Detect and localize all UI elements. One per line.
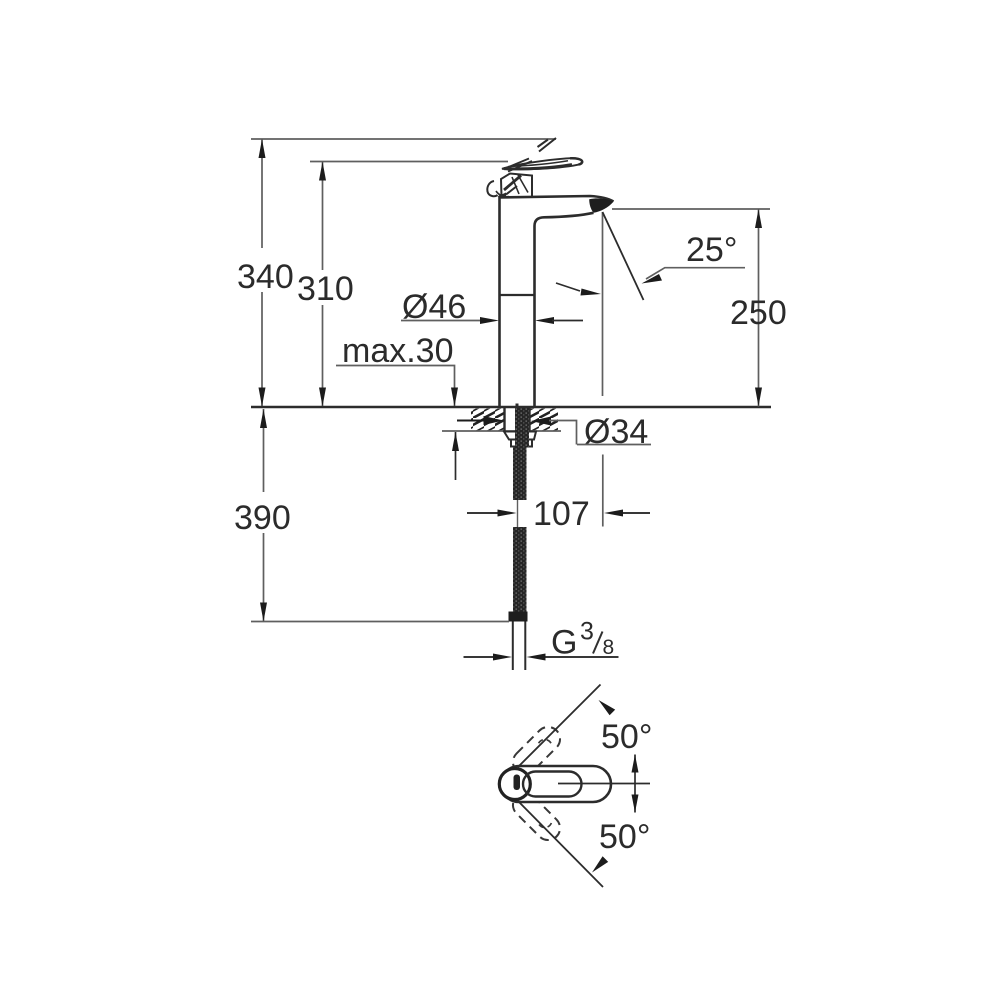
dimension 390 line [263, 409, 265, 621]
top view dashed handle upper inner arc [538, 737, 551, 750]
nut collar [511, 440, 532, 447]
faucet spout tip black wedge [589, 198, 613, 212]
supply hose lower [513, 527, 527, 612]
50deg upper arrowhead [599, 700, 616, 715]
svg-text:max.30: max.30 [342, 332, 454, 370]
hose end fitting [509, 612, 528, 622]
shank tube walls [505, 408, 530, 431]
50deg lower arrowhead [592, 856, 608, 872]
Ø46 underline leader to left arrow [401, 320, 481, 322]
hose end level line [251, 621, 509, 623]
107 right arrow [604, 510, 623, 517]
lever base dark wedge [497, 193, 506, 197]
svg-text:Ø34: Ø34 [584, 413, 648, 451]
dimension 310 line [322, 162, 324, 407]
G3/8 right arrow [527, 654, 546, 661]
Ø34 right arrow [531, 417, 551, 426]
base gasket tick [516, 404, 519, 407]
25deg arrow on vertical line [556, 283, 580, 291]
dimension 250 arrows [755, 209, 762, 407]
top view dashed handle lower inner arc [538, 817, 551, 830]
G3/8 left arrow [464, 656, 495, 658]
mounting nut [504, 432, 536, 440]
extension line 340 top [251, 138, 556, 140]
deck countertop line [251, 406, 771, 408]
hose centerline in gap [517, 500, 519, 527]
lever blade inner line [508, 161, 568, 167]
25deg slanted stream line [603, 212, 644, 300]
svg-text:25°: 25° [686, 231, 737, 269]
lever neck inner strokes [512, 175, 528, 194]
50deg upper boundary line [518, 685, 601, 768]
top view spout circle [499, 769, 530, 800]
25deg label leader [646, 268, 745, 279]
dimension 390 arrows [260, 409, 267, 622]
supply hose upper [513, 447, 527, 500]
lever blade tip curl [570, 158, 582, 164]
svg-text:390: 390 [234, 499, 291, 537]
top view dashed handle lower [508, 788, 565, 845]
lever blade underside heavy stroke [504, 165, 572, 169]
top view aerator bar [514, 775, 521, 791]
top view inner handle stadium [523, 772, 582, 797]
25deg arrow on slant line [642, 274, 663, 284]
svg-text:250: 250 [730, 294, 787, 332]
lever neck shading strokes [504, 176, 521, 191]
G3/8 tube end [513, 622, 526, 671]
faucet body seam line [500, 294, 535, 296]
lever tip slash [538, 138, 557, 152]
max.30 up arrow below counter [455, 432, 457, 480]
max.30 down arrow at deck [451, 388, 458, 407]
Ø46 right-pointing arrow at left wall [480, 317, 499, 324]
svg-text:50°: 50° [599, 818, 650, 856]
Ø34 left arrow [457, 420, 485, 422]
faucet body column [500, 196, 614, 407]
dimension 340 arrows [259, 139, 266, 407]
lever small lower arc [496, 191, 509, 197]
lever left hook arc [487, 181, 497, 196]
svg-text:310: 310 [297, 270, 354, 308]
107 tip extension line [602, 455, 604, 527]
svg-text:340: 340 [237, 258, 294, 296]
threaded rod below deck [515, 408, 529, 447]
25deg vertical stream line [602, 212, 604, 396]
dimension 250 line [758, 209, 760, 407]
max.30 leader and drop line [336, 366, 455, 407]
counter underside line [442, 430, 561, 432]
faucet spout underside curve into inner wall [535, 213, 594, 407]
Ø46 left-pointing arrow at inner wall [535, 317, 554, 324]
107 left arrow [467, 512, 498, 514]
svg-text:3: 3 [580, 618, 594, 646]
dimension 310 arrows [319, 162, 326, 407]
Ø34 leader [549, 421, 651, 445]
lever blade front edge strokes [505, 159, 532, 172]
top view angle double arrow [634, 755, 636, 813]
lever handle blade [502, 158, 582, 169]
50deg lower boundary line [518, 801, 603, 887]
counter hatch right block [530, 409, 558, 431]
top view dashed handle upper [508, 722, 565, 779]
svg-text:107: 107 [533, 495, 590, 533]
top view centerline [558, 783, 650, 785]
lever neck sketch [501, 174, 532, 197]
counter hatch left block [471, 409, 505, 431]
svg-text:8: 8 [603, 636, 615, 659]
svg-text:50°: 50° [601, 718, 652, 756]
extension line spout tip level [612, 208, 770, 210]
svg-text:G: G [551, 624, 577, 662]
dimension 340 line [261, 139, 263, 406]
top view outer stadium body [501, 766, 611, 802]
extension line 310 top [310, 161, 508, 163]
